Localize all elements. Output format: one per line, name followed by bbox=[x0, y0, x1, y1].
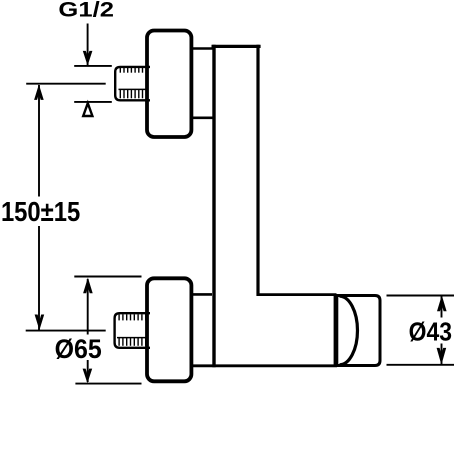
dimension line D65 upper segment bbox=[87, 279, 89, 335]
bottom flange behind escutcheon bbox=[190, 293, 212, 296]
extension line G1/2 bottom bbox=[74, 101, 112, 103]
extension line G1/2 top bbox=[74, 65, 112, 67]
dimension line 150 lower segment bbox=[38, 226, 40, 330]
center line top connector bbox=[26, 83, 106, 85]
arrow D43 down bbox=[437, 348, 447, 365]
top flange behind escutcheon bbox=[190, 49, 214, 118]
top threaded stub G1/2 bbox=[115, 67, 150, 100]
extension line D65 bottom bbox=[75, 383, 141, 385]
arrow D65 up bbox=[83, 278, 93, 294]
svg-text:Ø65: Ø65 bbox=[55, 334, 102, 364]
dimension line D43 upper segment bbox=[441, 296, 443, 318]
svg-text:G1/2: G1/2 bbox=[58, 0, 114, 21]
dimension line G1/2 bbox=[87, 24, 89, 66]
arrow G1/2 up hollow bbox=[83, 103, 92, 116]
arrow 150 up bbox=[34, 84, 44, 100]
extension line D43 bottom bbox=[387, 364, 454, 366]
arrow D43 up bbox=[437, 295, 447, 311]
bottom threaded stub bbox=[115, 313, 150, 348]
extension line D43 top bbox=[387, 295, 454, 297]
spout outlet horizontal bbox=[192, 295, 338, 366]
dimension line D43 lower segment bbox=[441, 344, 443, 365]
top escutcheon plate bbox=[147, 31, 191, 138]
arrow 150 down bbox=[35, 315, 45, 331]
dimension line D65 lower segment bbox=[87, 360, 89, 382]
center line bottom connector bbox=[26, 330, 106, 332]
svg-text:150±15: 150±15 bbox=[1, 196, 80, 227]
dimension line 150 upper segment bbox=[38, 85, 40, 197]
svg-text:Ø43: Ø43 bbox=[409, 316, 452, 346]
spout body end line bbox=[334, 295, 336, 366]
bottom escutcheon plate bbox=[147, 278, 191, 381]
arrow D65 down bbox=[83, 369, 93, 384]
pipe body vertical (riser) bbox=[212, 45, 261, 367]
extension line D65 top bbox=[74, 276, 141, 278]
spout end cap arc bbox=[340, 296, 358, 365]
arrow G1/2 down bbox=[83, 51, 93, 66]
spout end cap bbox=[337, 296, 380, 366]
